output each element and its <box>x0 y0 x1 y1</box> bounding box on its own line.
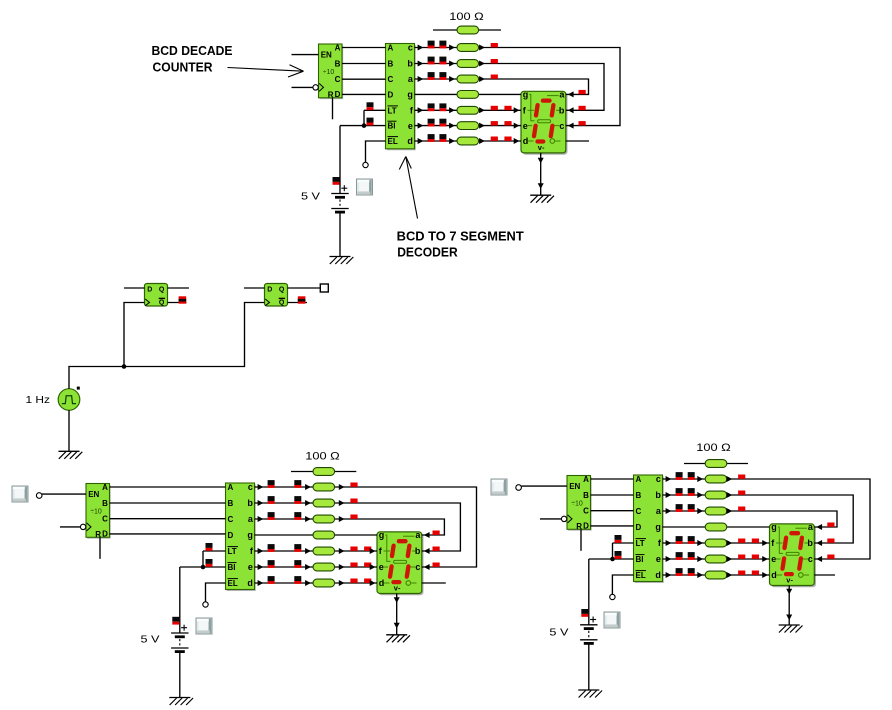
marker a red 1 (bottom left) <box>350 515 357 519</box>
arrow c 1 (bottom left) <box>258 484 264 490</box>
svg-text:DECODER: DECODER <box>397 246 458 260</box>
battery 5 V (bottom left) <box>171 625 188 652</box>
marker b 2 (top) <box>439 57 446 65</box>
arrow e 2 (top) <box>449 123 455 129</box>
arrow a 1 (bottom right) <box>666 508 672 514</box>
arrow v- (top) <box>538 183 544 189</box>
svg-text:C: C <box>228 515 234 524</box>
junction LT/BI (top) <box>362 123 367 128</box>
arrow d 1 (bottom right) <box>666 572 672 578</box>
resistor 100 Ohm label symbol (bottom left) <box>291 471 356 473</box>
arrow b 1 (bottom right) <box>666 492 672 498</box>
wire BI to battery + (top) <box>339 126 341 194</box>
svg-text:Q: Q <box>159 286 165 293</box>
svg-text:B: B <box>583 491 589 500</box>
arrow d 3 (bottom right) <box>727 572 733 578</box>
wire R reset stub (bottom right) <box>580 529 582 551</box>
marker e red 1 (top) <box>491 121 498 125</box>
arrow d 4 (bottom left) <box>370 580 376 586</box>
svg-text:v-: v- <box>538 143 545 152</box>
wire LT input (bottom left) <box>203 550 226 552</box>
svg-text:÷10: ÷10 <box>571 501 583 508</box>
svg-text:Q: Q <box>159 300 165 307</box>
marker f 1 (top) <box>428 103 435 111</box>
arrow f 1 (bottom left) <box>258 548 264 554</box>
wire counter A to decoder (top) <box>342 47 386 49</box>
marker e 2 (top) <box>439 119 446 127</box>
resistor 100 Ohm g (bottom right) <box>705 523 727 531</box>
svg-text:LT: LT <box>388 106 397 115</box>
arrow d 2 (bottom right) <box>697 572 703 578</box>
svg-text:÷10: ÷10 <box>90 509 102 516</box>
arrow f 3 (bottom right) <box>727 540 733 546</box>
junction clock trunk <box>122 364 127 369</box>
arrow e 4 (top) <box>514 123 520 129</box>
marker b 1 (bottom right) <box>676 488 683 496</box>
wire display dp stub (bottom left) <box>422 582 446 584</box>
wire decoder c via resistor to display (top) <box>415 48 621 126</box>
svg-text:b: b <box>247 498 253 508</box>
marker d 2 (bottom right) <box>688 568 695 576</box>
wire clock input (bottom right) <box>540 518 561 520</box>
arrow f 4 (bottom left) <box>370 548 376 554</box>
arrow f 1 (bottom right) <box>666 540 672 546</box>
marker battery (top) <box>333 177 340 185</box>
wire counter B to decoder (bottom right) <box>591 494 634 496</box>
wire R reset stub (bottom left) <box>99 537 101 559</box>
marker c 1 (top) <box>428 41 435 49</box>
marker d red 1 (top) <box>491 137 498 141</box>
marker display c (bottom left) <box>433 563 440 567</box>
svg-text:v-: v- <box>786 576 793 585</box>
svg-text:Q: Q <box>279 300 285 307</box>
7-segment display (top) <box>521 90 568 155</box>
wire decoder e via resistor to display (bottom left) <box>255 566 378 568</box>
arrow v- (bottom right) <box>786 589 792 595</box>
wire decoder a via resistor to display (top) <box>415 79 589 94</box>
svg-text:b: b <box>807 538 813 548</box>
svg-text:EN: EN <box>569 482 580 491</box>
ground display (bottom right) <box>779 625 803 633</box>
marker e red 1 (bottom right) <box>738 555 745 559</box>
wire battery - to ground (bottom right) <box>588 644 590 690</box>
svg-text:c: c <box>408 43 413 53</box>
svg-text:1 Hz: 1 Hz <box>26 394 51 406</box>
BCD decade counter (top) <box>313 43 343 99</box>
svg-text:C: C <box>583 507 589 516</box>
arrow into display a (top) <box>568 91 574 97</box>
arrow e 3 (bottom left) <box>339 564 345 570</box>
wire decoder e via resistor to display (bottom right) <box>663 558 770 560</box>
svg-text:5 V: 5 V <box>549 627 568 639</box>
arrow f 4 (bottom right) <box>762 540 768 546</box>
arrow b 1 (bottom left) <box>258 500 264 506</box>
wire decoder c via resistor to display (bottom left) <box>255 487 477 567</box>
ground clock <box>59 451 83 459</box>
wire BI to battery + (bottom right) <box>588 559 590 625</box>
wire counter B to decoder (bottom left) <box>110 502 226 504</box>
svg-text:100 Ω: 100 Ω <box>696 442 731 454</box>
marker LT (bottom left) <box>206 543 213 551</box>
arrow v- (bottom left) <box>394 597 400 603</box>
marker d 2 (bottom left) <box>294 576 301 584</box>
svg-text:LT: LT <box>636 539 645 548</box>
marker FF1 Qbar <box>179 296 187 303</box>
arrow f 4 (top) <box>514 107 520 113</box>
marker c 2 (bottom left) <box>294 480 301 488</box>
svg-text:c: c <box>415 562 420 572</box>
arrow d 4 (bottom right) <box>762 572 768 578</box>
input terminal (bottom right) <box>516 485 522 491</box>
marker d 2 (top) <box>439 134 446 142</box>
marker e 1 (bottom right) <box>676 552 683 560</box>
wire decoder b via resistor to display (bottom left) <box>255 503 461 551</box>
svg-text:D: D <box>267 286 272 293</box>
resistor 100 Ohm d (bottom right) <box>705 571 727 579</box>
svg-text:A: A <box>583 475 589 484</box>
wire decoder e via resistor to display (top) <box>415 125 522 127</box>
arrow e 2 (bottom right) <box>697 556 703 562</box>
wire decoder d via resistor to display (bottom left) <box>255 582 378 584</box>
marker c 2 (bottom right) <box>688 472 695 480</box>
arrow d 1 (bottom left) <box>258 580 264 586</box>
svg-text:C: C <box>102 515 108 524</box>
resistor 100 Ohm d (top) <box>457 137 479 145</box>
wire display dp stub (bottom right) <box>814 574 835 576</box>
wire junction to FF1 clock <box>124 303 145 367</box>
marker d red 2 (bottom left) <box>364 579 371 583</box>
svg-text:A: A <box>335 43 341 52</box>
wire LT input (bottom right) <box>613 542 634 544</box>
marker f 2 (bottom left) <box>294 544 301 552</box>
wire decoder f via resistor to display (bottom right) <box>663 542 770 544</box>
svg-text:B: B <box>636 491 642 500</box>
svg-text:v-: v- <box>394 584 401 593</box>
wire decoder b via resistor to display (bottom right) <box>663 495 854 543</box>
wire clock input (bottom left) <box>60 526 80 528</box>
arrow b 2 (top) <box>449 61 455 67</box>
svg-text:e: e <box>771 554 776 564</box>
wire display v- to ground (top) <box>540 153 542 195</box>
wire decoder g to resistor to display g (bottom left) <box>255 534 378 536</box>
marker FF2 Qbar <box>298 296 306 303</box>
svg-text:BCD DECADE: BCD DECADE <box>152 44 233 58</box>
arrow f 3 (bottom left) <box>339 548 345 554</box>
arrow v- (bottom left) <box>394 623 400 629</box>
BCD to 7-segment decoder (bottom left) <box>226 482 256 591</box>
marker b 2 (bottom right) <box>688 488 695 496</box>
svg-text:D: D <box>583 522 589 531</box>
marker display b (top) <box>579 106 586 110</box>
svg-text:BCD TO 7 SEGMENT: BCD TO 7 SEGMENT <box>397 230 524 244</box>
marker a red 1 (bottom right) <box>738 507 745 511</box>
annotation arrow to decoder <box>406 157 418 219</box>
svg-text:COUNTER: COUNTER <box>153 61 213 75</box>
off-page connector <box>320 284 328 292</box>
marker d 1 (top) <box>428 134 435 142</box>
wire decoder b via resistor to display (top) <box>415 64 605 111</box>
wire R reset stub (top) <box>332 98 334 120</box>
marker display c (bottom right) <box>827 555 834 559</box>
BCD to 7-segment decoder (top) <box>386 43 416 151</box>
marker a 2 (bottom left) <box>294 512 301 520</box>
wire BI to battery + (bottom left) <box>179 567 181 633</box>
arrow into display c (bottom left) <box>424 564 430 570</box>
marker f 2 (bottom right) <box>688 536 695 544</box>
arrow c 3 (bottom right) <box>727 476 733 482</box>
svg-text:LT: LT <box>228 547 237 556</box>
wire counter A to decoder (bottom right) <box>591 478 634 480</box>
svg-text:e: e <box>379 562 384 572</box>
ground display (bottom left) <box>386 635 410 643</box>
ground battery (top) <box>330 257 354 265</box>
arrow a 1 (top) <box>418 76 424 82</box>
wire decoder g to resistor to display g (top) <box>415 93 522 95</box>
svg-text:d: d <box>771 570 777 580</box>
svg-text:D: D <box>228 531 234 540</box>
arrow e 3 (bottom right) <box>727 556 733 562</box>
svg-text:A: A <box>636 475 642 484</box>
wire FF2 Qbar output stub <box>288 302 308 304</box>
battery 5 V (bottom right) <box>580 617 597 644</box>
resistor 100 Ohm e (bottom left) <box>313 563 335 571</box>
svg-text:EL: EL <box>636 571 646 580</box>
marker d red 1 (bottom left) <box>350 579 357 583</box>
arrow e 2 (bottom left) <box>305 564 311 570</box>
marker a 2 (bottom right) <box>688 504 695 512</box>
arrow f 2 (bottom left) <box>305 548 311 554</box>
arrow into display a (bottom left) <box>424 532 430 538</box>
marker b 1 (bottom left) <box>268 496 275 504</box>
push button battery (bottom left) <box>196 618 212 634</box>
arrow f 3 (top) <box>479 107 485 113</box>
annotation arrow to counter <box>228 68 304 72</box>
marker e red 2 (top) <box>504 121 511 125</box>
arrow a 3 (top) <box>479 76 485 82</box>
marker display b (bottom left) <box>433 547 440 551</box>
svg-text:÷10: ÷10 <box>323 69 335 76</box>
arrow into display c (top) <box>568 123 574 129</box>
resistor 100 Ohm f (bottom left) <box>313 547 335 555</box>
svg-text:d: d <box>247 578 253 588</box>
marker c 1 (bottom left) <box>268 480 275 488</box>
push button battery (bottom right) <box>604 612 620 628</box>
arrow e 1 (top) <box>418 123 424 129</box>
svg-text:g: g <box>655 522 661 532</box>
svg-text:D: D <box>147 286 152 293</box>
marker display a (top) <box>579 90 586 94</box>
svg-text:EL: EL <box>228 579 238 588</box>
BCD to 7-segment decoder (bottom right) <box>634 474 664 583</box>
junction LT/BI (bottom left) <box>201 565 206 570</box>
input terminal (bottom left) <box>36 493 42 499</box>
wire decoder a via resistor to display (bottom right) <box>663 511 838 527</box>
svg-text:C: C <box>335 75 341 84</box>
resistor 100 Ohm f (top) <box>457 106 479 114</box>
marker d red 2 (top) <box>504 137 511 141</box>
svg-text:BI: BI <box>228 563 236 572</box>
D flip-flop FF2 <box>265 284 288 307</box>
svg-text:D: D <box>388 91 394 100</box>
svg-text:B: B <box>388 60 394 69</box>
svg-text:c: c <box>248 482 253 492</box>
wire display dp stub (top) <box>566 140 589 142</box>
marker f 1 (bottom right) <box>676 536 683 544</box>
marker e red 2 (bottom right) <box>752 555 759 559</box>
wire LT input (top) <box>364 109 386 111</box>
wire counter D to decoder (top) <box>342 93 386 95</box>
marker f red 1 (bottom right) <box>738 539 745 543</box>
marker d 1 (bottom left) <box>268 576 275 584</box>
arrow into display a (bottom right) <box>816 524 822 530</box>
7-segment display (bottom right) <box>770 522 817 587</box>
marker e red 1 (bottom left) <box>350 563 357 567</box>
svg-text:c: c <box>559 121 564 131</box>
marker display a (bottom right) <box>827 523 834 527</box>
svg-text:C: C <box>388 75 394 84</box>
wire counter A to decoder (bottom left) <box>110 486 226 488</box>
marker LT (bottom right) <box>615 535 622 543</box>
svg-text:e: e <box>523 121 528 131</box>
push button input (bottom left) <box>12 486 28 502</box>
wire clock to flip-flop clocks <box>69 303 265 389</box>
resistor 100 Ohm a (top) <box>457 75 479 83</box>
ground battery (bottom left) <box>169 698 193 706</box>
marker b 2 (bottom left) <box>294 496 301 504</box>
arrow b 3 (top) <box>479 61 485 67</box>
ground display (top) <box>530 195 554 203</box>
wire FF1 Q output stub <box>168 287 190 289</box>
arrow d 1 (top) <box>418 138 424 144</box>
resistor 100 Ohm b (top) <box>457 60 479 68</box>
wire counter B to decoder (top) <box>342 63 386 65</box>
resistor 100 Ohm c (top) <box>457 44 479 52</box>
svg-text:EN: EN <box>88 490 99 499</box>
wire decoder f via resistor to display (bottom left) <box>255 550 378 552</box>
wire decoder d via resistor to display (bottom right) <box>663 574 770 576</box>
marker f red 1 (bottom left) <box>350 547 357 551</box>
arrow c 1 (bottom right) <box>666 476 672 482</box>
marker LT (top) <box>367 102 374 110</box>
arrow a 3 (bottom right) <box>727 508 733 514</box>
BCD decade counter (bottom left) <box>80 483 110 539</box>
svg-text:100 Ω: 100 Ω <box>305 451 340 463</box>
push button input (bottom right) <box>491 479 507 495</box>
wire FF2 Q output to connector <box>288 287 321 289</box>
resistor 100 Ohm c (bottom right) <box>705 475 727 483</box>
arrow d 2 (bottom left) <box>305 580 311 586</box>
wire clock to ground <box>68 410 70 451</box>
arrow into display b (bottom left) <box>424 548 430 554</box>
wire BI input (bottom right) <box>589 558 634 560</box>
marker f red 1 (top) <box>491 106 498 110</box>
marker b red 1 (top) <box>491 59 498 63</box>
wire counter D to decoder (bottom right) <box>591 525 634 527</box>
marker b 1 (top) <box>428 57 435 65</box>
resistor 100 Ohm label symbol (bottom right) <box>684 463 748 465</box>
arrow d 2 (top) <box>449 138 455 144</box>
arrow c 2 (bottom left) <box>305 484 311 490</box>
marker f 1 (bottom left) <box>268 544 275 552</box>
arrow d 3 (bottom left) <box>339 580 345 586</box>
wire decoder g to resistor to display g (bottom right) <box>663 526 770 528</box>
wire battery - to ground (top) <box>339 213 341 257</box>
terminal EL (top) <box>363 162 368 167</box>
marker display a (bottom left) <box>433 531 440 535</box>
marker e 1 (top) <box>428 119 435 127</box>
svg-text:g: g <box>523 90 529 100</box>
arrow c 3 (top) <box>479 45 485 51</box>
svg-text:e: e <box>656 554 661 564</box>
wire counter C to decoder (top) <box>342 78 386 80</box>
marker a red 1 (top) <box>491 75 498 79</box>
arrow f 1 (top) <box>418 107 424 113</box>
svg-text:A: A <box>102 483 108 492</box>
wire EL input (bottom right) <box>612 575 633 594</box>
arrow into display b (top) <box>568 107 574 113</box>
svg-text:d: d <box>655 570 661 580</box>
svg-text:5 V: 5 V <box>141 633 160 645</box>
svg-text:A: A <box>228 483 234 492</box>
arrow e 4 (bottom right) <box>762 556 768 562</box>
marker b red 1 (bottom left) <box>350 499 357 503</box>
marker display b (bottom right) <box>827 539 834 543</box>
marker d red 1 (bottom right) <box>738 571 745 575</box>
marker e 2 (bottom left) <box>294 560 301 568</box>
svg-text:B: B <box>335 59 341 68</box>
svg-text:B: B <box>228 499 234 508</box>
D flip-flop FF1 <box>145 284 168 307</box>
svg-text:D: D <box>636 523 642 532</box>
arrow a 2 (top) <box>449 76 455 82</box>
arrow c 3 (bottom left) <box>339 484 345 490</box>
arrow into display b (bottom right) <box>816 540 822 546</box>
arrow d 4 (top) <box>514 138 520 144</box>
marker c red 1 (bottom left) <box>350 483 357 487</box>
svg-text:b: b <box>559 106 565 116</box>
svg-text:B: B <box>102 499 108 508</box>
arrow b 3 (bottom right) <box>727 492 733 498</box>
marker f red 2 (bottom left) <box>364 547 371 551</box>
arrow e 1 (bottom left) <box>258 564 264 570</box>
svg-text:e: e <box>408 121 413 131</box>
wire counter D to decoder (bottom left) <box>110 533 226 535</box>
wire decoder f via resistor to display (top) <box>415 109 522 111</box>
push button battery (top) <box>357 179 373 195</box>
svg-text:b: b <box>407 59 413 69</box>
wire decoder a via resistor to display (bottom left) <box>255 519 445 535</box>
marker a 1 (bottom right) <box>676 504 683 512</box>
marker BI (bottom left) <box>206 559 213 567</box>
arrow f 2 (top) <box>449 107 455 113</box>
resistor 100 Ohm c (bottom left) <box>313 483 335 491</box>
arrow d 3 (top) <box>479 138 485 144</box>
svg-text:c: c <box>808 554 813 564</box>
svg-text:D: D <box>335 90 341 99</box>
wire display v- to ground (bottom right) <box>788 586 790 626</box>
arrow a 2 (bottom left) <box>305 516 311 522</box>
resistor 100 Ohm a (bottom right) <box>705 507 727 515</box>
svg-text:100 Ω: 100 Ω <box>449 11 484 23</box>
svg-text:d: d <box>407 136 413 146</box>
arrow a 1 (bottom left) <box>258 516 264 522</box>
terminal EL (bottom left) <box>203 602 208 607</box>
7-segment display (bottom left) <box>377 530 424 595</box>
arrow v- (bottom right) <box>786 615 792 621</box>
marker e 2 (bottom right) <box>688 552 695 560</box>
resistor 100 Ohm e (top) <box>457 122 479 130</box>
battery 5 V (top) <box>331 185 348 212</box>
